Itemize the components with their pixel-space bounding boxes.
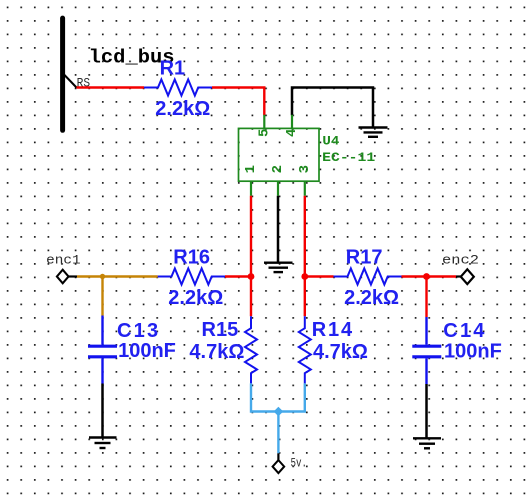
svg-text:R1: R1 bbox=[160, 58, 186, 80]
svg-text:1: 1 bbox=[243, 165, 259, 173]
svg-text:R14: R14 bbox=[312, 319, 354, 341]
svg-text:enc2: enc2 bbox=[442, 252, 479, 267]
svg-text:3: 3 bbox=[297, 165, 313, 173]
svg-text:4.7kΩ: 4.7kΩ bbox=[313, 341, 368, 363]
svg-text:R17: R17 bbox=[346, 247, 383, 269]
svg-text:5: 5 bbox=[256, 129, 272, 137]
svg-text:4: 4 bbox=[284, 129, 300, 137]
svg-text:2.2kΩ: 2.2kΩ bbox=[168, 287, 223, 309]
svg-text:100nF: 100nF bbox=[118, 340, 176, 362]
svg-text:5v.: 5v. bbox=[291, 456, 308, 471]
svg-text:U4: U4 bbox=[322, 134, 339, 149]
svg-text:C13: C13 bbox=[117, 320, 160, 342]
svg-text:EC--11: EC--11 bbox=[322, 150, 375, 165]
svg-text:100nF: 100nF bbox=[444, 341, 502, 363]
svg-text:R15: R15 bbox=[202, 319, 239, 341]
svg-text:enc1: enc1 bbox=[46, 252, 81, 267]
svg-text:R16: R16 bbox=[173, 247, 210, 269]
svg-text:4.7kΩ: 4.7kΩ bbox=[189, 341, 244, 363]
svg-text:2: 2 bbox=[270, 165, 286, 173]
svg-text:C14: C14 bbox=[443, 320, 486, 342]
svg-text:2.2kΩ: 2.2kΩ bbox=[155, 98, 210, 120]
svg-text:2.2kΩ: 2.2kΩ bbox=[344, 287, 399, 309]
